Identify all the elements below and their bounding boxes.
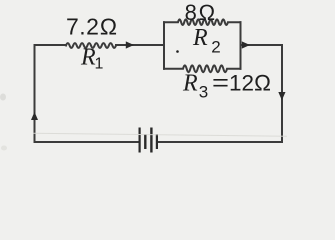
svg-text:3: 3 xyxy=(199,83,208,102)
svg-text:8Ω: 8Ω xyxy=(185,0,217,25)
svg-text:R: R xyxy=(182,70,198,96)
svg-text:1: 1 xyxy=(95,56,104,73)
svg-text:2: 2 xyxy=(211,38,220,57)
svg-text:R: R xyxy=(192,25,208,51)
svg-text:7.2Ω: 7.2Ω xyxy=(66,14,118,40)
svg-text:=: = xyxy=(212,70,229,96)
svg-text:12Ω: 12Ω xyxy=(229,71,271,96)
